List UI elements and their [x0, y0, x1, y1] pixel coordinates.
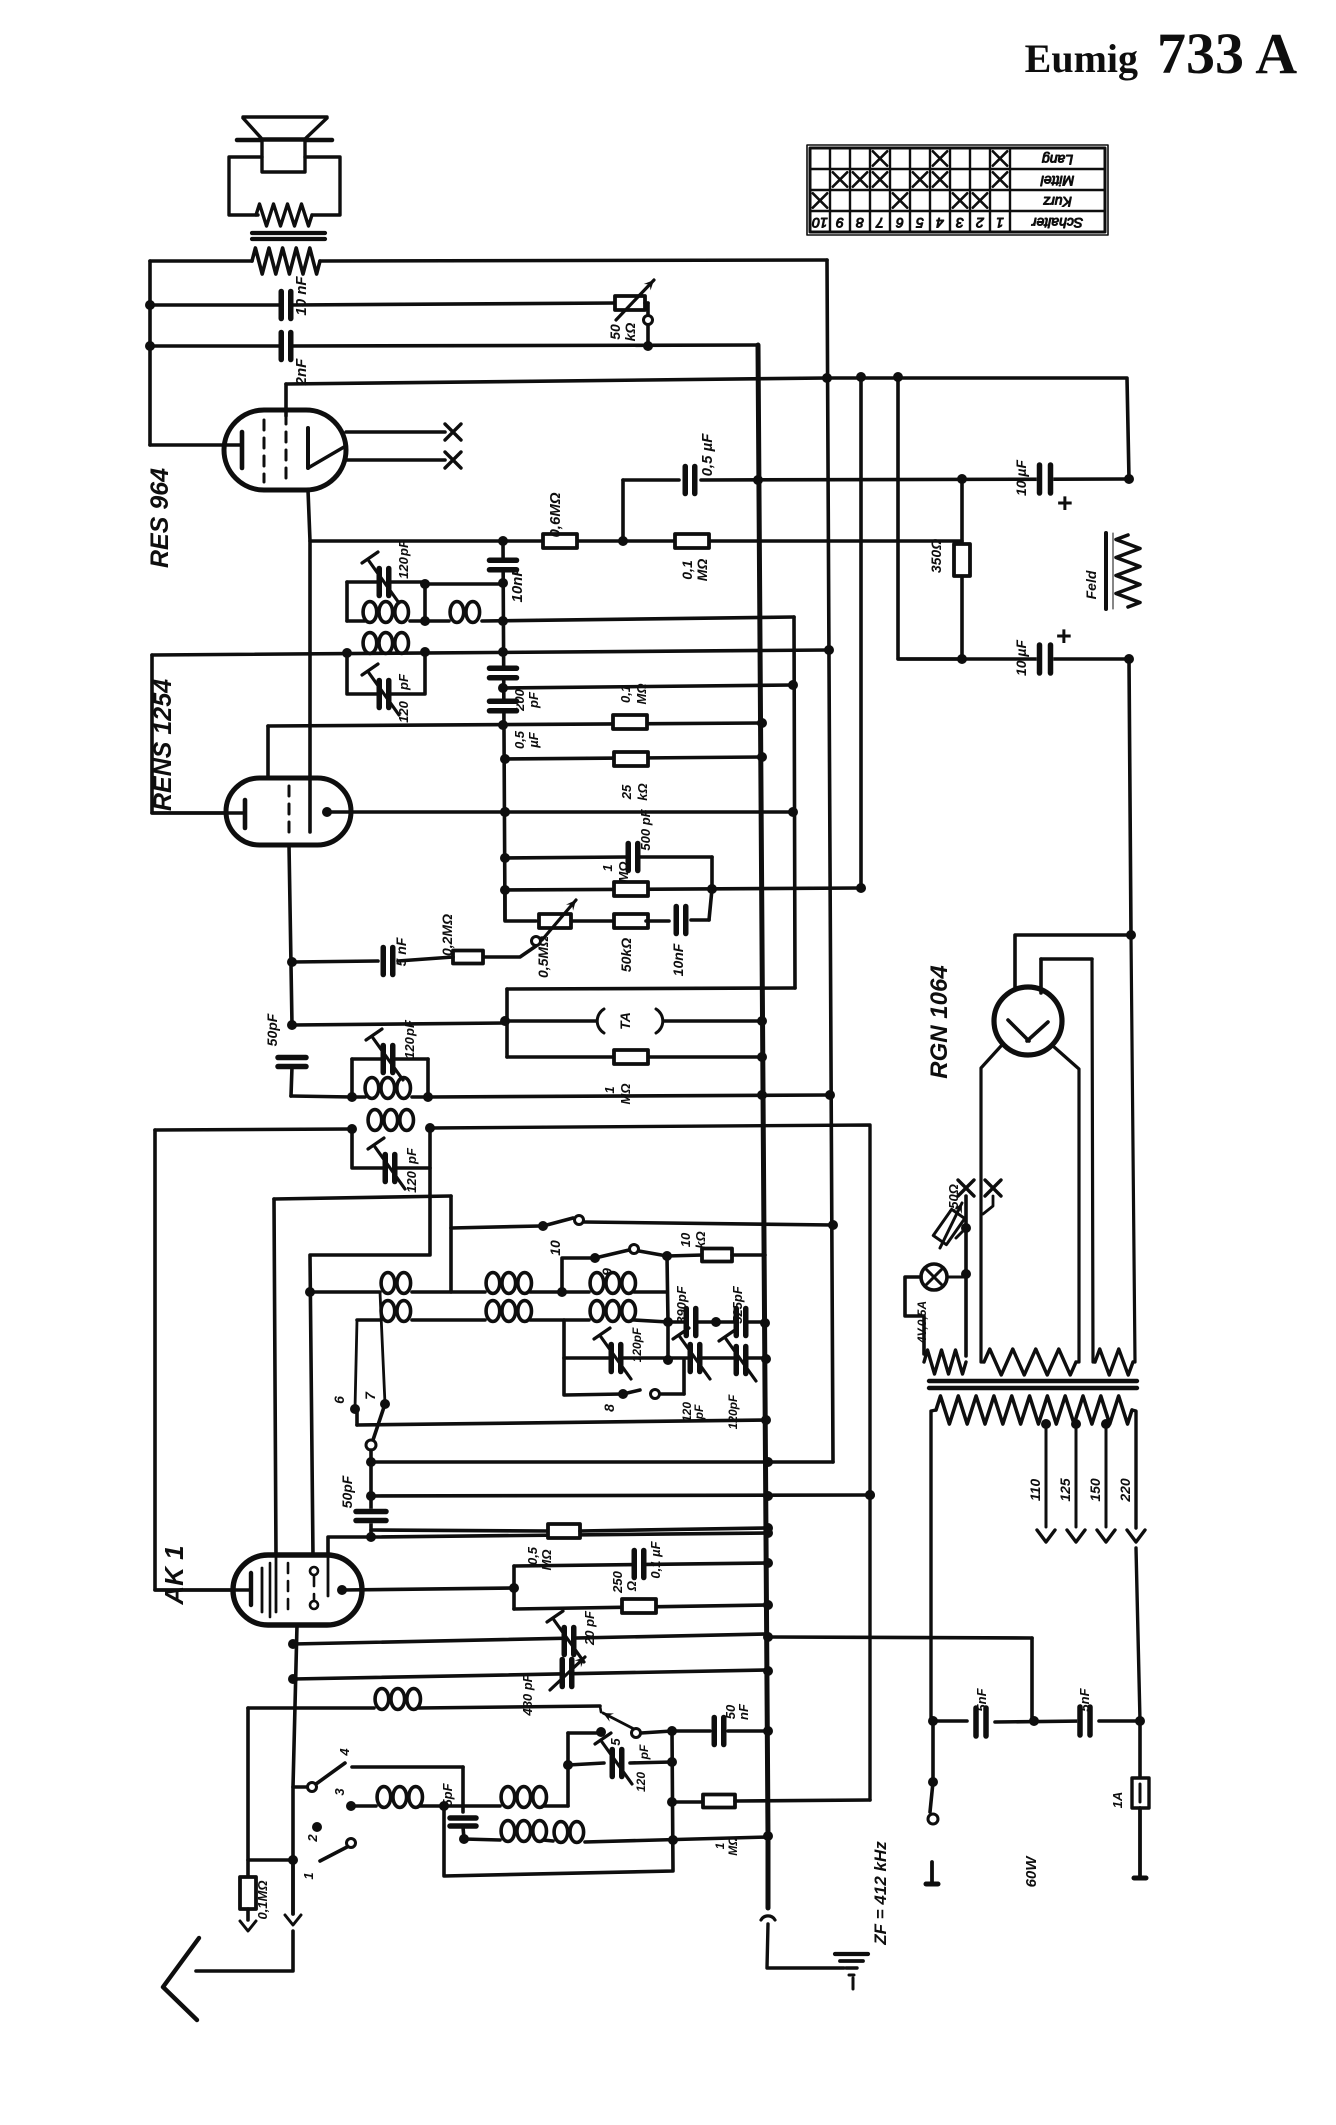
svg-text:kΩ: kΩ	[693, 1231, 708, 1248]
svg-text:1: 1	[996, 215, 1004, 231]
svg-text:4: 4	[936, 215, 944, 231]
svg-text:+: +	[1056, 621, 1072, 651]
svg-text:7: 7	[362, 1391, 378, 1400]
svg-text:733 A: 733 A	[1157, 21, 1297, 86]
svg-text:9: 9	[836, 215, 844, 231]
svg-text:0,1: 0,1	[679, 560, 695, 580]
svg-text:Feld: Feld	[1083, 570, 1099, 599]
svg-text:390pF: 390pF	[674, 1285, 689, 1324]
svg-text:10 nF: 10 nF	[293, 276, 310, 316]
svg-text:Lang: Lang	[1042, 152, 1073, 168]
svg-text:1: 1	[301, 1872, 316, 1879]
svg-text:4: 4	[337, 1748, 352, 1757]
svg-text:1: 1	[600, 864, 615, 871]
svg-text:10 µF: 10 µF	[1013, 640, 1029, 677]
svg-text:6: 6	[331, 1396, 347, 1404]
svg-text:220: 220	[1117, 1478, 1133, 1503]
svg-text:50pF: 50pF	[339, 1475, 355, 1508]
svg-text:525pF: 525pF	[730, 1285, 745, 1324]
svg-text:50: 50	[607, 324, 623, 340]
svg-text:5nF: 5nF	[974, 1687, 989, 1711]
svg-text:0,5: 0,5	[525, 1546, 540, 1565]
svg-text:2: 2	[305, 1834, 320, 1843]
svg-text:MΩ: MΩ	[634, 684, 649, 705]
svg-text:5 nF: 5 nF	[393, 937, 409, 966]
svg-text:120pF: 120pF	[726, 1394, 740, 1429]
svg-text:MΩ: MΩ	[694, 559, 710, 582]
svg-text:µF: µF	[526, 731, 541, 748]
svg-text:Ω: Ω	[624, 1581, 639, 1592]
svg-text:25: 25	[619, 784, 634, 800]
svg-text:120pF: 120pF	[630, 1327, 644, 1362]
svg-text:kΩ: kΩ	[635, 783, 650, 800]
svg-text:50pF: 50pF	[264, 1013, 280, 1046]
svg-text:60W: 60W	[1023, 1855, 1040, 1888]
svg-text:Schalter: Schalter	[1030, 215, 1083, 231]
svg-text:TA: TA	[617, 1012, 633, 1030]
svg-text:RGN 1064: RGN 1064	[926, 965, 953, 1078]
svg-text:0,1: 0,1	[618, 685, 633, 703]
svg-text:3: 3	[956, 215, 964, 231]
svg-text:MΩ: MΩ	[618, 1084, 633, 1105]
svg-text:0,5: 0,5	[512, 730, 527, 749]
svg-text:120: 120	[396, 700, 411, 722]
svg-text:pF: pF	[396, 673, 411, 691]
svg-text:120: 120	[402, 1036, 417, 1058]
svg-text:1A: 1A	[1110, 1792, 1125, 1809]
svg-text:10: 10	[812, 215, 828, 231]
svg-text:pF: pF	[402, 1019, 417, 1037]
svg-text:MΩ: MΩ	[616, 862, 631, 883]
svg-text:120: 120	[396, 556, 411, 578]
svg-text:20 pF: 20 pF	[582, 1610, 597, 1646]
svg-text:0,1MΩ: 0,1MΩ	[255, 1880, 270, 1919]
svg-text:9: 9	[599, 1268, 615, 1276]
svg-text:120: 120	[634, 1772, 648, 1792]
svg-text:1: 1	[602, 1086, 617, 1093]
svg-text:7: 7	[875, 215, 884, 231]
svg-text:0,1 µF: 0,1 µF	[648, 1540, 663, 1578]
svg-text:10: 10	[678, 1232, 693, 1247]
svg-text:pF: pF	[404, 1147, 419, 1165]
svg-text:6: 6	[896, 215, 904, 231]
svg-text:nF: nF	[736, 1703, 751, 1720]
svg-text:MΩ: MΩ	[539, 1550, 554, 1571]
svg-text:AK 1: AK 1	[159, 1545, 189, 1605]
svg-text:pF: pF	[692, 1404, 706, 1420]
svg-text:pF: pF	[396, 539, 411, 557]
svg-text:5: 5	[608, 1738, 623, 1746]
svg-text:5nF: 5nF	[1077, 1687, 1092, 1711]
svg-text:Kurz: Kurz	[1043, 194, 1072, 210]
svg-text:125: 125	[1057, 1478, 1073, 1502]
svg-text:+: +	[1057, 488, 1073, 518]
svg-text:10nF: 10nF	[509, 567, 526, 603]
svg-text:1: 1	[713, 1842, 727, 1849]
svg-text:pF: pF	[637, 1744, 651, 1760]
svg-text:350Ω: 350Ω	[928, 539, 944, 573]
svg-text:kΩ: kΩ	[622, 323, 638, 342]
svg-text:10: 10	[547, 1240, 563, 1256]
svg-text:10nF: 10nF	[670, 943, 686, 976]
svg-text:ZF = 412 kHz: ZF = 412 kHz	[871, 1841, 890, 1946]
svg-text:0,6MΩ: 0,6MΩ	[547, 492, 564, 537]
svg-text:4V,0,5A: 4V,0,5A	[915, 1301, 929, 1344]
svg-text:3: 3	[332, 1788, 347, 1796]
svg-text:10 µF: 10 µF	[1013, 460, 1029, 497]
svg-text:150: 150	[1087, 1478, 1103, 1502]
svg-text:5pF: 5pF	[440, 1782, 455, 1806]
svg-text:120: 120	[404, 1170, 419, 1192]
svg-text:500 pF: 500 pF	[638, 808, 653, 850]
svg-text:pF: pF	[526, 691, 541, 709]
svg-text:250: 250	[610, 1570, 625, 1593]
svg-text:8: 8	[601, 1404, 617, 1412]
svg-text:0,5 µF: 0,5 µF	[699, 433, 716, 477]
svg-text:0,2MΩ: 0,2MΩ	[439, 914, 455, 956]
svg-text:480 pF: 480 pF	[520, 1673, 535, 1716]
svg-text:2: 2	[976, 215, 985, 231]
svg-text:8: 8	[856, 215, 864, 231]
svg-text:Eumig: Eumig	[1025, 36, 1138, 81]
svg-text:50kΩ: 50kΩ	[618, 938, 634, 972]
svg-text:110: 110	[1027, 1479, 1043, 1502]
svg-text:RES 964: RES 964	[146, 468, 174, 568]
svg-text:Mittel: Mittel	[1040, 173, 1074, 189]
svg-text:RENS 1254: RENS 1254	[149, 679, 177, 811]
svg-text:5: 5	[916, 215, 924, 231]
